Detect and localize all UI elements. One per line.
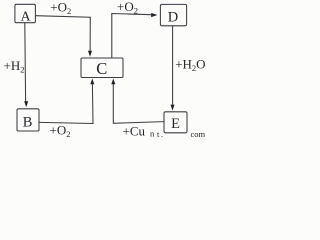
arrowhead into B top [24, 101, 28, 107]
arrow A to C (+O2) : wire right then down [36, 16, 91, 52]
svg-text:A: A [21, 10, 32, 25]
arrowhead into C bottom right [111, 79, 115, 85]
arrowhead into D left [151, 13, 157, 17]
box D [160, 4, 186, 25]
svg-text:com: com [191, 129, 206, 138]
svg-text:C: C [96, 59, 107, 78]
arrowhead into E top [171, 105, 175, 111]
arrow A to B (+H2) : wire down [24, 23, 27, 102]
svg-text:+Cu: +Cu [123, 124, 146, 139]
arrowhead into C top [88, 51, 92, 57]
svg-text:E: E [171, 116, 180, 132]
svg-text:B: B [23, 115, 33, 131]
arrow D to E (+H2O) : wire down [172, 26, 174, 105]
box B [17, 109, 39, 131]
arrow E to C (+Cu) : wire left then up [113, 84, 164, 123]
svg-text:+H2O: +H2O [175, 57, 205, 74]
svg-text:.: . [161, 130, 163, 138]
watermark text [150, 129, 206, 140]
arrow C to D (+O2) : wire up then right [112, 14, 152, 59]
arrowhead into C bottom left [90, 79, 94, 85]
box C [81, 58, 123, 78]
box A [15, 4, 36, 22]
svg-text:D: D [168, 9, 178, 25]
box E [164, 112, 187, 133]
arrow B to C (+O2) : wire right then up [40, 84, 94, 124]
